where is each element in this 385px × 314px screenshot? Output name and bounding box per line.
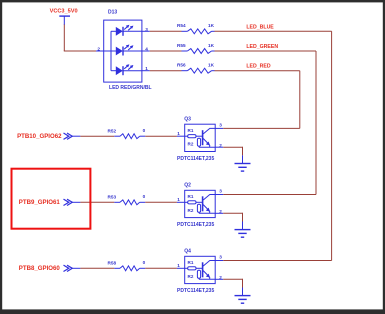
svg-text:R2: R2 <box>188 208 194 213</box>
svg-text:R1: R1 <box>188 128 194 133</box>
svg-text:PTB10_GPIO62: PTB10_GPIO62 <box>17 133 62 140</box>
svg-text:R53: R53 <box>108 194 117 199</box>
svg-text:D13: D13 <box>108 9 117 15</box>
svg-text:PDTC114ET,235: PDTC114ET,235 <box>177 222 214 228</box>
svg-text:0: 0 <box>143 260 146 265</box>
svg-text:R1: R1 <box>188 194 194 199</box>
svg-text:LED RED/GRN/BL: LED RED/GRN/BL <box>109 85 152 91</box>
svg-text:Q3: Q3 <box>184 117 191 123</box>
svg-text:1: 1 <box>177 197 180 202</box>
svg-text:R54: R54 <box>177 23 186 28</box>
svg-text:R2: R2 <box>188 142 194 147</box>
svg-text:0: 0 <box>143 128 146 133</box>
svg-text:2: 2 <box>219 143 222 148</box>
svg-text:2: 2 <box>219 275 222 280</box>
svg-text:PDTC114ET,235: PDTC114ET,235 <box>177 156 214 162</box>
svg-text:1K: 1K <box>208 63 215 68</box>
svg-text:Q2: Q2 <box>184 183 191 189</box>
svg-text:R52: R52 <box>108 128 117 133</box>
svg-text:R2: R2 <box>188 274 194 279</box>
svg-text:PTB8_GPIO60: PTB8_GPIO60 <box>19 265 61 272</box>
svg-text:R58: R58 <box>108 260 117 265</box>
svg-text:R55: R55 <box>177 43 186 48</box>
svg-text:LED_BLUE: LED_BLUE <box>246 24 274 30</box>
svg-text:VCC3_5V0: VCC3_5V0 <box>50 8 78 14</box>
svg-text:PTB9_GPIO61: PTB9_GPIO61 <box>19 199 61 206</box>
svg-text:0: 0 <box>143 194 146 199</box>
svg-text:LED_GREEN: LED_GREEN <box>246 44 278 50</box>
svg-text:2: 2 <box>97 46 100 51</box>
svg-text:3: 3 <box>219 254 222 259</box>
svg-text:PDTC114ET,235: PDTC114ET,235 <box>177 288 214 294</box>
svg-text:1: 1 <box>177 263 180 268</box>
svg-text:1K: 1K <box>208 23 215 28</box>
svg-text:1K: 1K <box>208 43 215 48</box>
svg-text:1: 1 <box>177 131 180 136</box>
svg-text:Q4: Q4 <box>184 249 191 255</box>
svg-text:2: 2 <box>219 209 222 214</box>
svg-text:LED_RED: LED_RED <box>246 64 270 70</box>
svg-text:3: 3 <box>219 188 222 193</box>
svg-text:R1: R1 <box>188 260 194 265</box>
svg-text:R56: R56 <box>177 63 186 68</box>
svg-text:3: 3 <box>219 122 222 127</box>
